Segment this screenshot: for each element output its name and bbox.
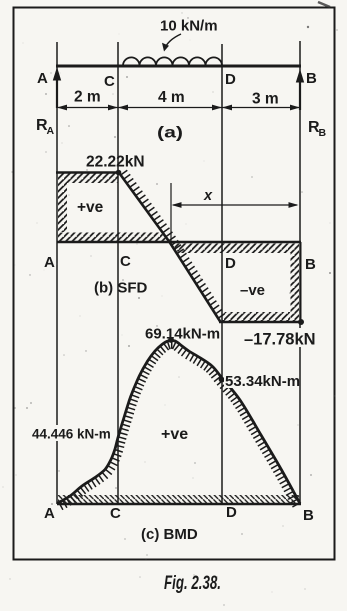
svg-text:D: D [226, 504, 237, 521]
svg-text:–17.78kN: –17.78kN [244, 331, 316, 349]
svg-text:B: B [319, 127, 327, 139]
svg-text:D: D [225, 71, 236, 88]
svg-text:A: A [44, 254, 55, 271]
svg-text:+ve: +ve [161, 426, 188, 443]
svg-text:A: A [37, 70, 48, 87]
svg-text:(c) BMD: (c) BMD [141, 526, 198, 543]
svg-text:B: B [306, 70, 317, 87]
svg-text:C: C [120, 253, 131, 270]
svg-text:4 m: 4 m [158, 89, 185, 106]
svg-text:(b) SFD: (b) SFD [94, 280, 147, 297]
svg-text:D: D [225, 255, 236, 272]
svg-text:3 m: 3 m [252, 91, 279, 108]
svg-text:–ve: –ve [240, 282, 265, 299]
svg-text:B: B [305, 256, 316, 273]
svg-text:2 m: 2 m [74, 89, 101, 106]
svg-text:x: x [203, 188, 213, 204]
svg-text:C: C [110, 505, 121, 522]
svg-text:A: A [47, 125, 55, 137]
svg-text:22.22kN: 22.22kN [86, 154, 145, 171]
svg-text:A: A [44, 505, 55, 522]
svg-text:C: C [104, 73, 115, 90]
svg-text:44.446 kN-m: 44.446 kN-m [32, 427, 111, 442]
svg-text:+ve: +ve [77, 199, 104, 216]
svg-text:(a): (a) [157, 125, 183, 142]
svg-text:Fig. 2.38.: Fig. 2.38. [164, 573, 221, 594]
svg-text:B: B [303, 507, 314, 524]
svg-text:10 kN/m: 10 kN/m [160, 18, 218, 35]
svg-text:53.34kN-m: 53.34kN-m [225, 373, 300, 390]
svg-text:69.14kN-m: 69.14kN-m [145, 326, 220, 343]
